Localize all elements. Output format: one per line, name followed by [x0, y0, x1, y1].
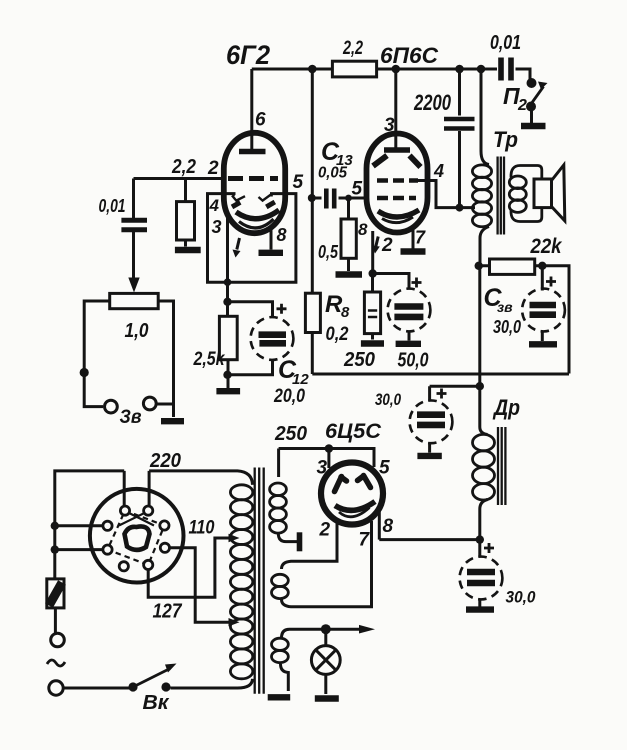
- svg-text:0,5: 0,5: [318, 242, 339, 262]
- svg-text:7: 7: [359, 530, 371, 551]
- svg-text:5: 5: [293, 172, 304, 193]
- svg-text:250: 250: [343, 349, 375, 371]
- svg-text:50,0: 50,0: [398, 350, 429, 372]
- svg-text:220: 220: [149, 450, 181, 472]
- svg-text:6Г2: 6Г2: [226, 40, 270, 70]
- svg-text:3: 3: [212, 217, 222, 237]
- svg-text:Др: Др: [492, 395, 520, 420]
- svg-text:6Ц5С: 6Ц5С: [325, 420, 382, 443]
- svg-text:2: 2: [207, 158, 219, 179]
- svg-text:0,01: 0,01: [99, 196, 126, 216]
- svg-text:30,0: 30,0: [506, 588, 536, 607]
- svg-text:22k: 22k: [530, 235, 563, 258]
- svg-text:2: 2: [319, 520, 331, 541]
- svg-text:20,0: 20,0: [273, 386, 305, 407]
- svg-text:30,0: 30,0: [493, 317, 521, 337]
- svg-text:2,2: 2,2: [342, 38, 363, 59]
- svg-text:0,05: 0,05: [318, 165, 348, 182]
- svg-text:0,2: 0,2: [326, 324, 349, 345]
- svg-text:0,01: 0,01: [490, 32, 521, 54]
- svg-text:5: 5: [352, 179, 363, 200]
- svg-text:8: 8: [358, 220, 368, 239]
- svg-text:8: 8: [277, 225, 287, 245]
- svg-text:4: 4: [433, 161, 444, 181]
- svg-text:4: 4: [209, 196, 220, 215]
- svg-text:2,2: 2,2: [171, 156, 196, 178]
- svg-text:30,0: 30,0: [375, 390, 401, 409]
- svg-text:7: 7: [415, 228, 426, 248]
- svg-text:2,5k: 2,5k: [193, 349, 226, 370]
- svg-text:127: 127: [153, 601, 183, 623]
- svg-text:3: 3: [384, 115, 395, 136]
- svg-text:6П6С: 6П6С: [380, 43, 439, 68]
- svg-text:110: 110: [189, 518, 215, 539]
- svg-text:2: 2: [381, 235, 393, 256]
- svg-text:3: 3: [317, 458, 328, 479]
- svg-text:8: 8: [383, 516, 394, 537]
- svg-text:6: 6: [255, 110, 266, 131]
- svg-text:2200: 2200: [413, 90, 451, 115]
- svg-text:5: 5: [379, 458, 390, 479]
- svg-text:Тр: Тр: [493, 127, 518, 152]
- svg-text:250: 250: [274, 423, 307, 445]
- svg-text:зв: зв: [497, 299, 513, 315]
- svg-text:Зв: Зв: [120, 407, 142, 428]
- svg-text:Вк: Вк: [143, 692, 170, 714]
- svg-text:1,0: 1,0: [125, 320, 149, 342]
- svg-text:2: 2: [517, 97, 527, 114]
- svg-text:8: 8: [341, 304, 350, 321]
